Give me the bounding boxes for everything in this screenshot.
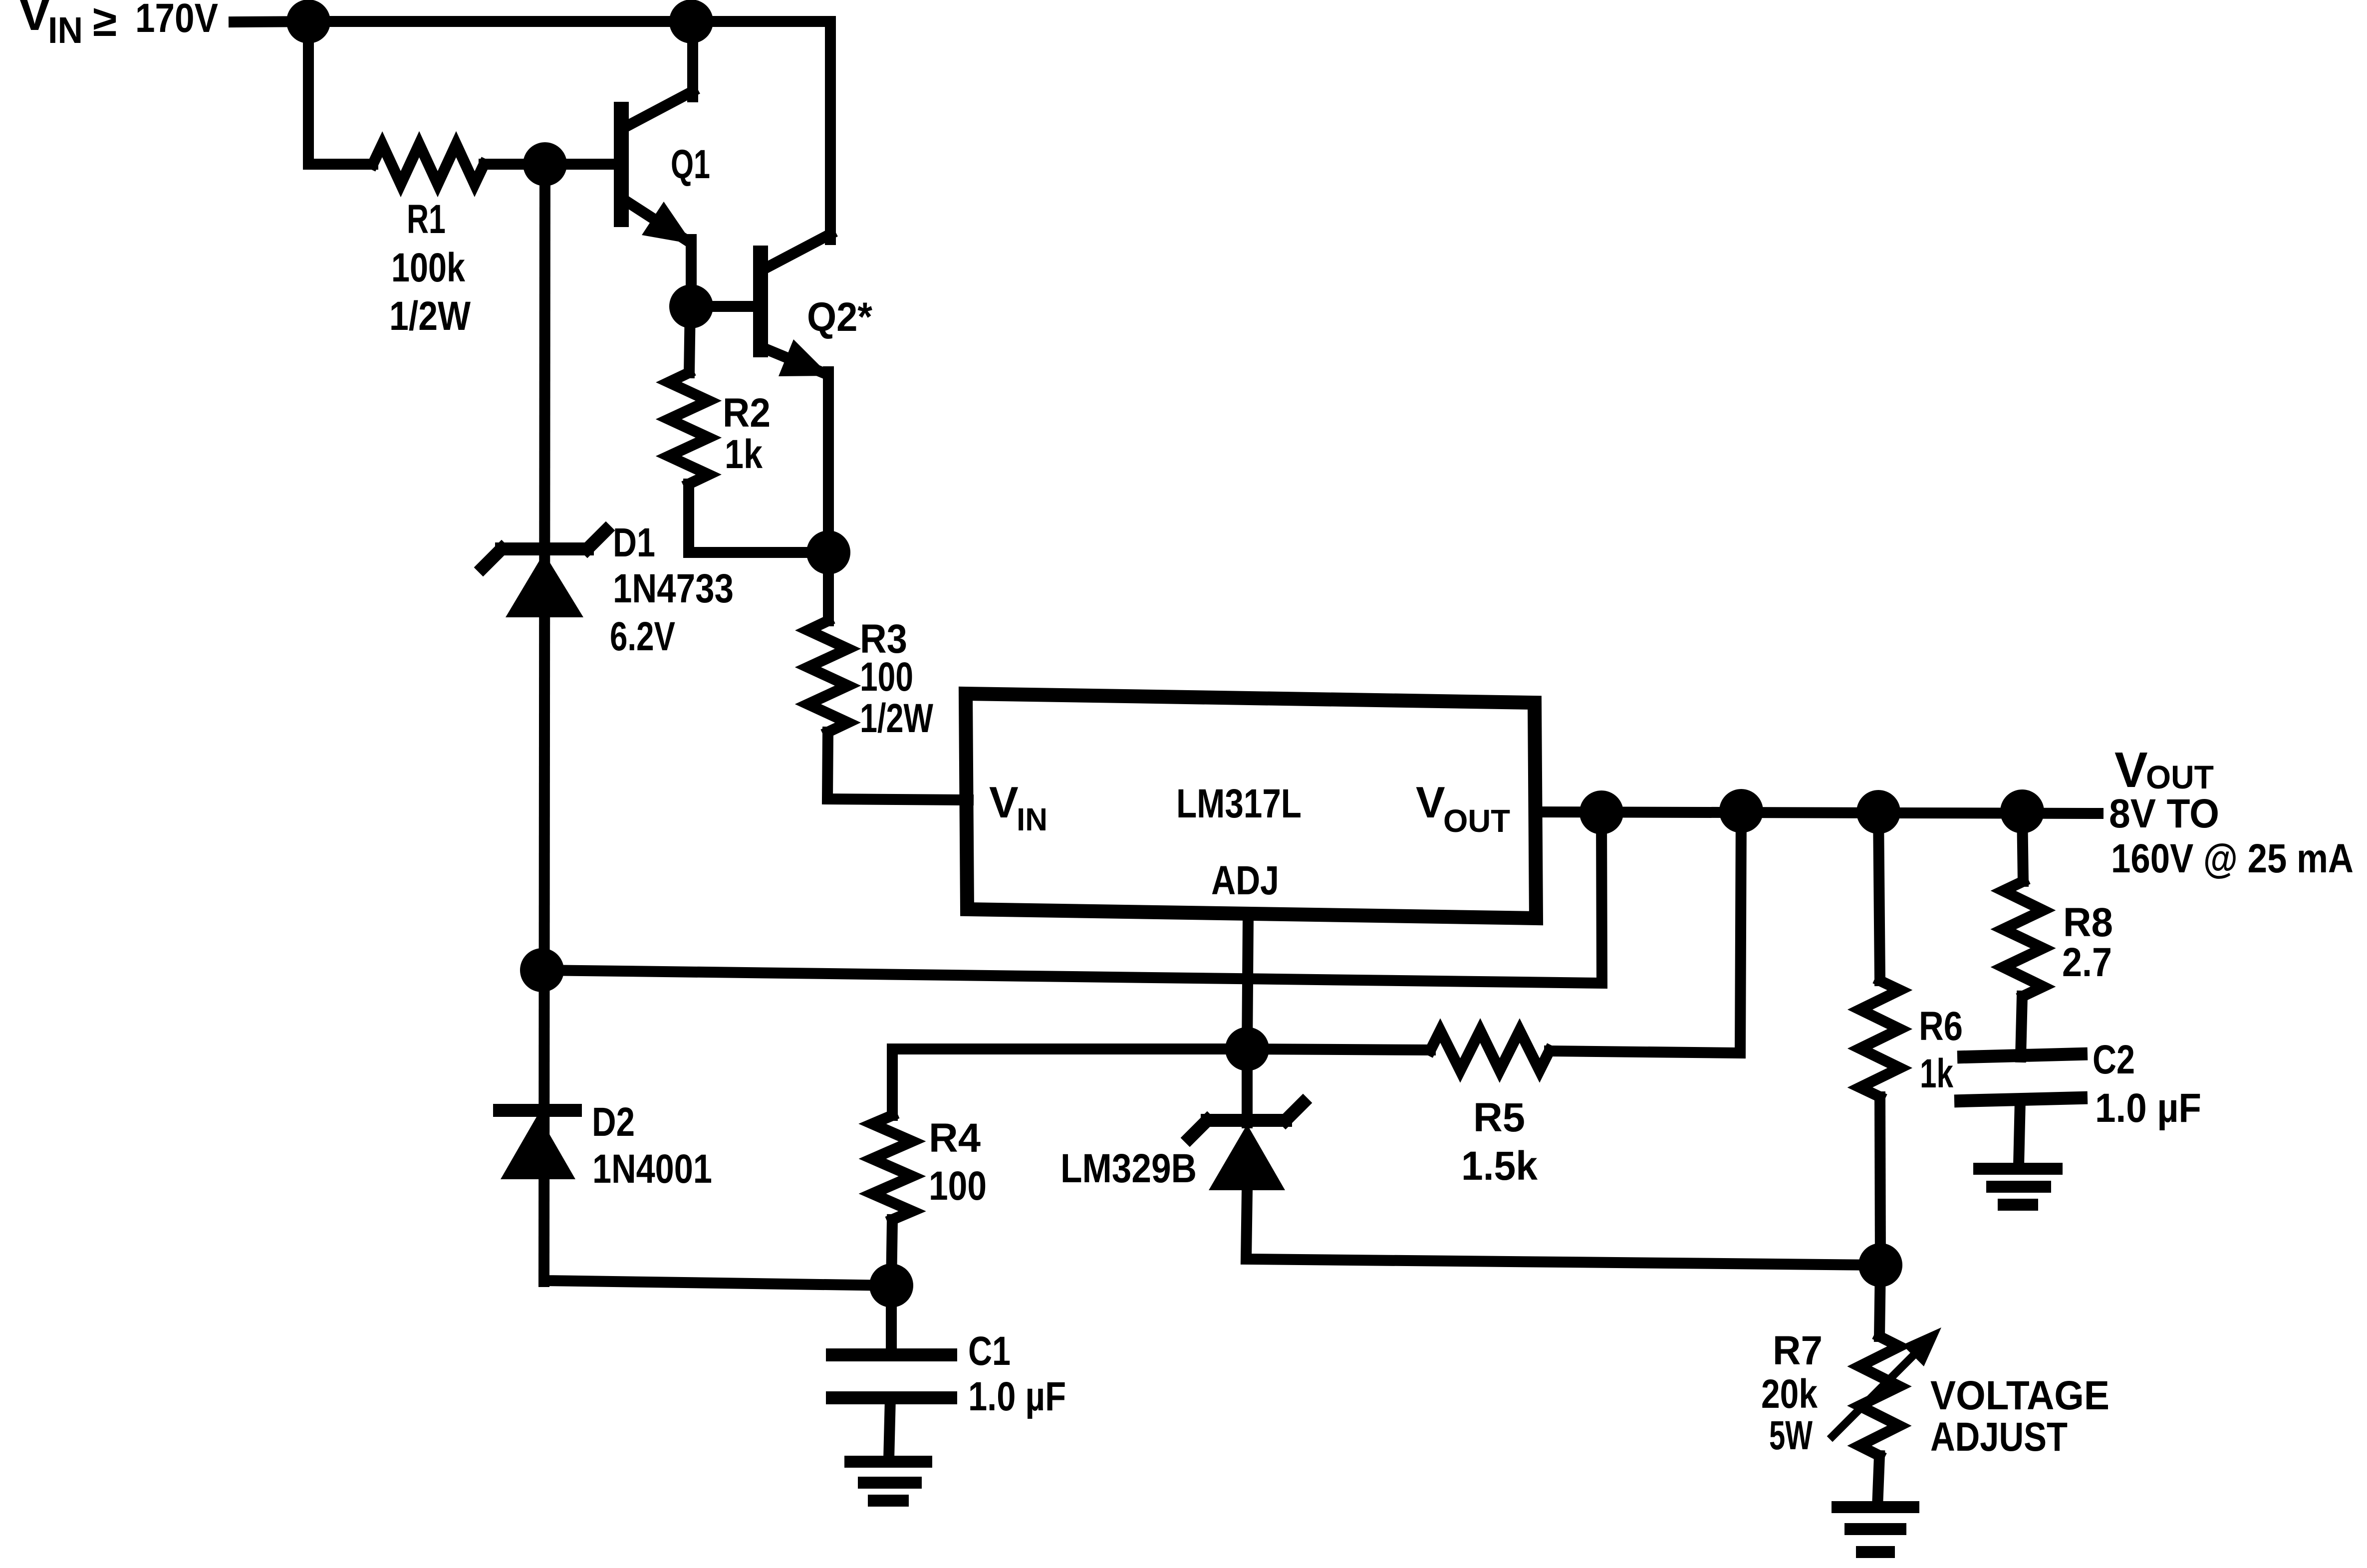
wire R4 top	[887, 1049, 898, 1115]
svg-text:D2: D2	[592, 1099, 635, 1145]
label R4 100	[929, 1115, 987, 1209]
svg-text:1.5k: 1.5k	[1461, 1143, 1538, 1189]
svg-text:1k: 1k	[1920, 1051, 1953, 1096]
svg-text:100: 100	[929, 1163, 987, 1209]
wire R7 bottom	[1877, 1456, 1879, 1507]
label R2 1k	[723, 390, 771, 477]
IC U1 LM317L box	[966, 694, 1536, 918]
wire R5 right end up to VOUT rail	[1550, 811, 1741, 1053]
wire R7 top	[1879, 1265, 1880, 1336]
ground C2	[1979, 1169, 2057, 1205]
svg-text:D1: D1	[613, 520, 655, 565]
resistor R8	[2003, 881, 2043, 996]
label R7 20k 5W	[1761, 1328, 1823, 1458]
wire LM329B anode to R7 node	[1246, 1190, 1880, 1265]
svg-text:IN: IN	[1017, 801, 1048, 837]
wire R6 bottom	[1880, 1097, 1880, 1265]
resistor R5	[1430, 1031, 1550, 1070]
node D2 / R4 / C1 junction	[875, 1269, 908, 1302]
wire R3 to LM317 VIN pin	[827, 732, 968, 800]
node feedback junction on left rail	[526, 954, 558, 987]
svg-text:C1: C1	[968, 1328, 1011, 1374]
label D2 1N4001	[592, 1099, 712, 1192]
wire left rail (R1 node through D1, D2)	[544, 164, 545, 1282]
svg-text:1.0 µF: 1.0 µF	[968, 1374, 1066, 1419]
pin label VIN	[989, 778, 1048, 837]
svg-text:LM329B: LM329B	[1060, 1146, 1197, 1191]
label R8 2.7	[2062, 900, 2113, 985]
node Q1 emitter junction	[675, 290, 708, 323]
wire C2 bottom lead	[2019, 1100, 2020, 1166]
wire ADJ node to LM329B cathode	[1242, 1049, 1253, 1123]
wire R6 top	[1878, 812, 1880, 981]
net label VIN >= 170V	[18, 0, 218, 51]
capacitor C1	[832, 1355, 951, 1398]
zener diode LM329B	[1190, 1103, 1303, 1190]
zener diode D1	[483, 530, 606, 617]
svg-text:VOLTAGE: VOLTAGE	[1930, 1373, 2109, 1418]
svg-text:V: V	[1416, 778, 1445, 827]
svg-text:2.7: 2.7	[2062, 940, 2112, 985]
node R2 R3 Q2 emitter junction	[812, 536, 845, 569]
svg-text:≥: ≥	[93, 0, 117, 45]
svg-text:R6: R6	[1919, 1004, 1963, 1049]
resistor R7 (potentiometer)	[1859, 1336, 1899, 1456]
resistor R2	[669, 373, 709, 484]
svg-text:R1: R1	[407, 197, 446, 242]
svg-text:5W: 5W	[1769, 1413, 1813, 1458]
svg-text:1k: 1k	[725, 432, 763, 477]
svg-text:V: V	[18, 0, 51, 41]
svg-text:1/2W: 1/2W	[860, 696, 933, 741]
svg-text:R8: R8	[2063, 900, 2113, 945]
wire top rail	[308, 16, 830, 27]
capacitor C2	[1961, 1054, 2081, 1101]
node VOUT dot 1	[1585, 796, 1618, 829]
svg-text:8V TO: 8V TO	[2109, 791, 2219, 836]
wire R2 top	[689, 306, 690, 373]
wire C1 bottom lead	[889, 1398, 890, 1459]
svg-text:Q1: Q1	[671, 142, 710, 187]
svg-text:100: 100	[860, 654, 913, 700]
node VIN junction	[292, 5, 325, 38]
transistor Q1	[621, 21, 693, 312]
wire ADJ pin	[1247, 918, 1248, 1049]
svg-text:V: V	[2114, 742, 2148, 798]
node R1 / D1 junction	[528, 148, 561, 181]
net label VOUT 8V TO 160V @ 25 mA	[2109, 742, 2354, 881]
node R6 / LM329B / R7 junction	[1864, 1249, 1897, 1282]
label R1 100k 1/2W	[389, 197, 471, 339]
svg-text:1N4733: 1N4733	[613, 566, 734, 611]
wire VIN node down to R1	[308, 21, 373, 164]
svg-text:1N4001: 1N4001	[592, 1146, 712, 1192]
wire VIN input lead	[234, 21, 314, 22]
ground C1	[850, 1462, 926, 1501]
svg-text:1.0 µF: 1.0 µF	[2095, 1085, 2201, 1131]
wire Q2 base	[691, 301, 757, 312]
svg-text:LM317L: LM317L	[1176, 781, 1302, 826]
wire R4 bottom	[891, 1220, 892, 1286]
ground R7	[1838, 1507, 1913, 1552]
svg-text:R5: R5	[1473, 1095, 1525, 1140]
resistor R3	[808, 621, 848, 732]
label D1 1N4733 6.2V	[610, 520, 734, 659]
diode D2	[500, 1110, 575, 1179]
arrow R7 adjust	[1833, 1327, 1941, 1436]
label C1 1.0uF	[968, 1328, 1066, 1419]
svg-text:170V: 170V	[135, 0, 218, 41]
transistor Q2	[761, 21, 830, 552]
svg-text:1/2W: 1/2W	[389, 293, 471, 339]
svg-text:ADJUST: ADJUST	[1930, 1414, 2068, 1460]
node VOUT dot 4	[2006, 795, 2039, 828]
node Q1 collector junction	[675, 5, 708, 38]
svg-text:160V @ 25 mA: 160V @ 25 mA	[2111, 836, 2354, 881]
svg-text:R2: R2	[723, 390, 771, 436]
node VOUT dot 3	[1862, 795, 1895, 828]
resistor R1	[373, 144, 484, 184]
wire R8 bottom	[2021, 996, 2022, 1057]
wire R3 top	[823, 552, 834, 621]
svg-text:V: V	[989, 778, 1019, 827]
label VOLTAGE ADJUST	[1930, 1373, 2109, 1460]
svg-text:100k: 100k	[391, 245, 465, 290]
node ADJ junction	[1231, 1033, 1264, 1065]
resistor R6	[1860, 981, 1900, 1097]
label R6 1k	[1919, 1004, 1963, 1096]
svg-text:R7: R7	[1773, 1328, 1823, 1373]
wire D2 anode to C1 node	[544, 1275, 891, 1286]
svg-text:OUT: OUT	[1443, 803, 1510, 839]
svg-text:C2: C2	[2093, 1037, 2135, 1082]
label C2 1.0uF	[2093, 1037, 2201, 1131]
svg-text:IN: IN	[48, 9, 83, 51]
wire feedback VOUT to left rail	[542, 812, 1602, 983]
wire VOUT rail	[1536, 812, 2098, 813]
wire ADJ rail R4 to R5	[892, 1049, 1430, 1050]
label R3 100 1/2W	[860, 616, 933, 741]
wire R1 to Q1 base	[484, 159, 617, 170]
svg-text:20k: 20k	[1761, 1371, 1818, 1417]
resistor R4	[872, 1115, 912, 1220]
svg-text:R4: R4	[929, 1115, 981, 1161]
svg-text:6.2V: 6.2V	[610, 614, 675, 659]
wire R8 top	[2022, 811, 2023, 881]
svg-text:OUT: OUT	[2146, 759, 2214, 795]
wire R2 bottom	[689, 484, 828, 552]
pin label VOUT	[1416, 778, 1510, 839]
svg-text:Q2*: Q2*	[807, 294, 872, 340]
label R5 1.5k	[1461, 1095, 1538, 1189]
wire C1 top lead	[886, 1286, 897, 1353]
node VOUT dot 2	[1725, 794, 1758, 827]
svg-text:ADJ: ADJ	[1211, 858, 1279, 903]
